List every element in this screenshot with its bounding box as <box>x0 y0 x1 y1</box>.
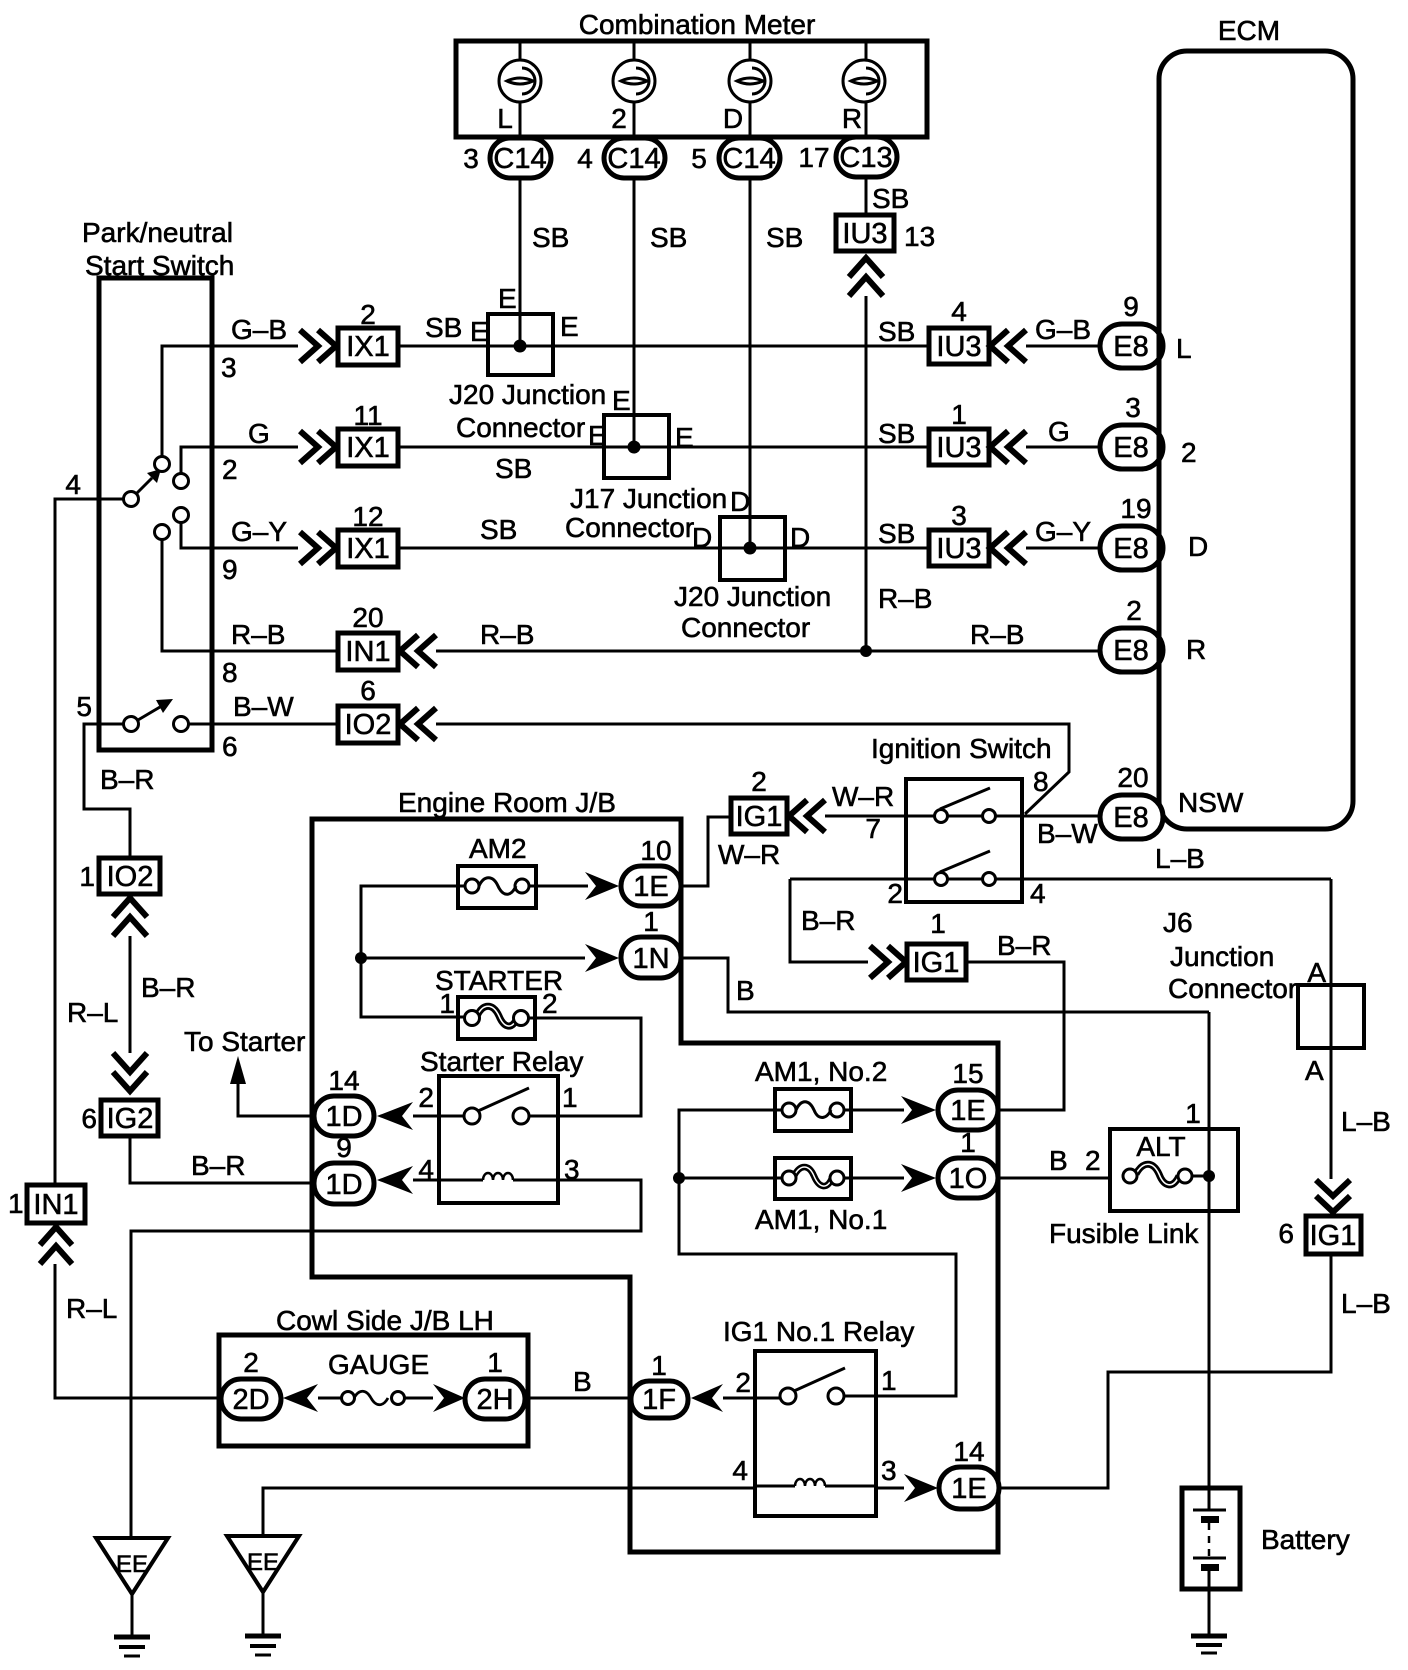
svg-text:B–R: B–R <box>801 905 855 936</box>
ignition switch arm 1 <box>940 788 990 809</box>
svg-text:2D: 2D <box>232 1384 269 1416</box>
svg-text:SB: SB <box>878 518 915 549</box>
svg-text:L–B: L–B <box>1341 1288 1391 1319</box>
svg-text:IN1: IN1 <box>345 636 390 668</box>
wire relay pin3 to 1E14 <box>876 1487 904 1490</box>
svg-text:IU3: IU3 <box>842 218 887 250</box>
svg-text:B–W: B–W <box>233 691 294 722</box>
svg-text:W–R: W–R <box>718 839 780 870</box>
svg-text:13: 13 <box>904 221 935 252</box>
svg-text:2: 2 <box>751 766 767 797</box>
svg-text:1: 1 <box>79 861 95 892</box>
svg-text:R–L: R–L <box>66 1293 117 1324</box>
svg-text:12: 12 <box>352 501 383 532</box>
arrow out of 2D <box>283 1384 318 1412</box>
connector C13 pin 17 <box>798 137 897 177</box>
connector IU3 pin 1 <box>929 399 989 465</box>
svg-text:IG1: IG1 <box>1310 1220 1357 1252</box>
svg-text:10: 10 <box>640 835 671 866</box>
svg-text:AM2: AM2 <box>469 833 527 864</box>
svg-text:2: 2 <box>360 299 376 330</box>
connector E8 pin 19 <box>1100 493 1163 570</box>
svg-text:2: 2 <box>1126 595 1142 626</box>
connector chevrons after IN1 <box>400 635 418 667</box>
ground EE 1 <box>96 1538 168 1656</box>
svg-text:2: 2 <box>243 1347 259 1378</box>
IG1 relay arm <box>794 1368 845 1391</box>
svg-text:7: 7 <box>865 813 881 844</box>
battery <box>1182 1488 1240 1634</box>
svg-text:E8: E8 <box>1113 802 1148 834</box>
connector chevrons into IG1 1 <box>870 946 888 978</box>
connector E8 pin 2 <box>1100 595 1163 672</box>
wire G-Y from E8 19 <box>1026 547 1100 550</box>
connector 1E pin 15 <box>938 1058 998 1130</box>
wire R-B vertical from IU3 13 <box>865 296 868 651</box>
node ALT output <box>1203 1170 1215 1182</box>
svg-text:Connector: Connector <box>681 612 810 643</box>
svg-text:W–R: W–R <box>832 781 894 812</box>
svg-text:SB: SB <box>650 222 687 253</box>
wire AM2 feed <box>361 886 465 1017</box>
connector chevrons after IO2 <box>400 708 418 740</box>
ignition switch arm 2 <box>940 851 990 872</box>
connector chevrons above IG2 <box>113 1053 147 1072</box>
wire G from E8 3 <box>1026 446 1100 449</box>
wire B-R from IG2 to 1D9 <box>130 1136 314 1183</box>
ground battery <box>1191 1636 1227 1653</box>
svg-text:Junction: Junction <box>1170 941 1274 972</box>
svg-text:D: D <box>790 522 810 553</box>
svg-text:3: 3 <box>881 1455 897 1486</box>
connector IG1 pin 1 <box>907 908 966 980</box>
IG1 No.1 relay box <box>755 1351 876 1516</box>
svg-text:2: 2 <box>887 878 903 909</box>
connector E8 pin 20 (NSW) <box>1100 762 1163 839</box>
svg-text:G–Y: G–Y <box>231 516 287 547</box>
junction connector J17 (E) <box>565 385 727 543</box>
svg-text:E: E <box>588 420 607 451</box>
svg-text:2: 2 <box>611 103 627 134</box>
svg-text:E8: E8 <box>1113 533 1148 565</box>
node R-B junction <box>860 645 872 657</box>
svg-text:2: 2 <box>418 1082 434 1113</box>
svg-text:IG1: IG1 <box>736 801 783 833</box>
svg-text:IO2: IO2 <box>345 709 392 741</box>
svg-text:J20 Junction: J20 Junction <box>674 581 831 612</box>
switch upper contacts <box>155 457 170 472</box>
svg-text:SB: SB <box>480 514 517 545</box>
svg-text:R–B: R–B <box>231 619 285 650</box>
svg-text:4: 4 <box>65 469 81 500</box>
connector 2D pin 2 <box>221 1347 281 1419</box>
connector chevrons under IN1 1 <box>40 1227 72 1245</box>
svg-text:1: 1 <box>1185 1098 1201 1129</box>
svg-text:B–R: B–R <box>100 764 154 795</box>
svg-text:Starter Relay: Starter Relay <box>420 1046 583 1077</box>
svg-text:L: L <box>497 103 513 134</box>
svg-text:SB: SB <box>766 222 803 253</box>
wire pin 5 down to IO2 <box>84 724 130 858</box>
wire B-R from IG1 1 to 1E 15 <box>966 962 1064 1110</box>
svg-text:EE: EE <box>247 1549 279 1576</box>
svg-text:J20 Junction: J20 Junction <box>449 379 606 410</box>
svg-text:20: 20 <box>1117 762 1148 793</box>
wire AM1 No1 to 1O <box>844 1177 904 1180</box>
svg-text:1: 1 <box>930 908 946 939</box>
fuse AM2 <box>458 866 536 908</box>
connector IN1 pin 1 <box>8 1185 85 1223</box>
wire pin 8 stub <box>162 540 338 651</box>
svg-text:B–R: B–R <box>191 1150 245 1181</box>
svg-text:Battery: Battery <box>1261 1524 1350 1555</box>
svg-text:E: E <box>675 422 694 453</box>
starter relay coil <box>439 1173 558 1180</box>
arrow into 1D 14 <box>377 1102 413 1130</box>
wire ignition row 2 L-B <box>790 878 1331 881</box>
connector IU3 pin 3 <box>929 500 989 566</box>
connector chevrons into IX1 row 2 <box>300 431 318 463</box>
svg-text:1F: 1F <box>642 1384 676 1416</box>
svg-text:6: 6 <box>360 675 376 706</box>
connector IU3 pin 4 <box>929 296 989 364</box>
wire row D (G-Y/SB) <box>398 547 929 550</box>
svg-text:5: 5 <box>691 143 707 174</box>
fuse GAUGE <box>318 1391 433 1405</box>
svg-text:2: 2 <box>1181 437 1197 468</box>
svg-text:E: E <box>498 283 517 314</box>
svg-text:E: E <box>470 316 489 347</box>
connector 1E pin 10 <box>621 835 681 906</box>
connector chevrons into IX1 row D <box>300 532 318 564</box>
svg-text:IG1 No.1 Relay: IG1 No.1 Relay <box>723 1316 914 1347</box>
connector IG2 pin 6 <box>81 1100 158 1136</box>
svg-text:4: 4 <box>951 296 967 327</box>
lamp D <box>729 60 771 102</box>
wire W-R <box>825 815 906 818</box>
connector 1N pin 1 <box>621 906 681 978</box>
svg-text:D: D <box>1188 531 1208 562</box>
svg-text:IU3: IU3 <box>936 432 981 464</box>
fuse AM1 No.1 (fusible link) <box>775 1158 851 1199</box>
svg-text:B–R: B–R <box>141 972 195 1003</box>
fusible link ALT box <box>1110 1129 1238 1211</box>
svg-text:C14: C14 <box>493 143 546 175</box>
svg-text:L–B: L–B <box>1341 1106 1391 1137</box>
svg-text:R–L: R–L <box>67 997 118 1028</box>
svg-text:J17 Junction: J17 Junction <box>570 483 727 514</box>
svg-text:C14: C14 <box>722 143 775 175</box>
svg-text:1: 1 <box>651 1350 667 1381</box>
connector chevrons under IU3 13 <box>849 258 883 277</box>
svg-text:1N: 1N <box>632 943 669 975</box>
svg-text:1E: 1E <box>951 1473 986 1505</box>
svg-text:6: 6 <box>81 1103 97 1134</box>
svg-text:R–B: R–B <box>878 583 932 614</box>
wire STARTER to relay pin1 <box>528 1018 641 1116</box>
svg-text:E8: E8 <box>1113 635 1148 667</box>
arrow into 1N <box>585 944 619 972</box>
cowl side J/B box <box>219 1335 528 1446</box>
svg-text:14: 14 <box>953 1436 984 1467</box>
wire relay pin2 to 1D14 <box>413 1115 439 1118</box>
wire 2H to 1F <box>525 1397 631 1400</box>
svg-text:Cowl Side J/B LH: Cowl Side J/B LH <box>276 1305 494 1336</box>
lamp R <box>843 60 885 102</box>
arrow into 1E 14 <box>904 1474 938 1502</box>
fuse AM1 No.2 <box>775 1089 851 1131</box>
wire NSW row <box>906 815 1100 818</box>
svg-text:R–B: R–B <box>480 619 534 650</box>
svg-text:B: B <box>573 1366 592 1397</box>
svg-text:SB: SB <box>872 183 909 214</box>
connector IG1 pin 2 <box>731 766 787 834</box>
svg-text:11: 11 <box>353 400 382 431</box>
svg-text:Fusible Link: Fusible Link <box>1049 1218 1199 1249</box>
svg-text:Connector: Connector <box>565 512 694 543</box>
svg-text:5: 5 <box>76 691 92 722</box>
starter relay box <box>439 1076 558 1203</box>
svg-text:SB: SB <box>878 418 915 449</box>
wire G-B from E8 L <box>1026 345 1100 348</box>
svg-text:9: 9 <box>1123 291 1139 322</box>
connector 1O pin 1 <box>938 1127 998 1198</box>
wire row B-W <box>436 724 1069 814</box>
svg-text:2: 2 <box>735 1367 751 1398</box>
junction connector J20 (E) <box>449 283 606 443</box>
svg-text:L: L <box>1176 333 1192 364</box>
svg-text:G–Y: G–Y <box>1035 516 1091 547</box>
connector chevrons after IU3 row L <box>990 330 1008 362</box>
wire pin 9 stub <box>181 523 298 548</box>
svg-text:A: A <box>1307 957 1326 988</box>
svg-text:4: 4 <box>577 143 593 174</box>
wire pin 6 B-W <box>189 723 338 726</box>
connector IG1 pin 6 <box>1278 1216 1361 1254</box>
connector E8 pin 3 <box>1100 392 1163 469</box>
svg-text:9: 9 <box>222 554 238 585</box>
arrow into IG1 relay pin 2 <box>691 1384 723 1412</box>
svg-text:9: 9 <box>336 1132 352 1163</box>
wire IG1 2 to 1E 10 <box>681 817 731 886</box>
lamp L <box>499 60 541 102</box>
svg-text:D: D <box>723 103 743 134</box>
svg-text:8: 8 <box>1033 766 1049 797</box>
wire pin 2 stub <box>181 447 298 473</box>
wire lamp stems <box>520 41 866 548</box>
svg-text:1: 1 <box>8 1188 24 1219</box>
svg-text:GAUGE: GAUGE <box>328 1349 429 1380</box>
svg-text:3: 3 <box>221 352 237 383</box>
svg-text:E: E <box>560 311 579 342</box>
svg-text:1: 1 <box>487 1347 503 1378</box>
svg-text:G: G <box>1048 416 1070 447</box>
svg-text:NSW: NSW <box>1178 787 1244 818</box>
wire AM2 to 1E10 <box>529 885 588 888</box>
svg-text:3: 3 <box>463 143 479 174</box>
svg-text:IX1: IX1 <box>346 432 390 464</box>
wire L-B vertical through J6 <box>1330 879 1333 1179</box>
svg-text:1O: 1O <box>949 1163 988 1195</box>
svg-text:1D: 1D <box>325 1169 362 1201</box>
connector IO2 pin 6 <box>338 675 398 743</box>
node AM2/1N junction <box>355 952 367 964</box>
starter relay arm <box>478 1088 529 1111</box>
svg-text:4: 4 <box>1030 878 1046 909</box>
switch lower contacts <box>124 717 139 732</box>
svg-text:Ignition Switch: Ignition Switch <box>871 733 1052 764</box>
svg-text:R–B: R–B <box>970 619 1024 650</box>
svg-text:SB: SB <box>532 222 569 253</box>
svg-text:R: R <box>842 103 862 134</box>
svg-text:1: 1 <box>951 399 967 430</box>
wire pin 4 to left <box>55 499 123 1185</box>
connector IX1 pin 12 <box>338 501 398 567</box>
connector C14 pin 3 <box>463 138 551 178</box>
svg-text:3: 3 <box>951 500 967 531</box>
connector 1D pin 9 <box>314 1132 374 1204</box>
wire battery column <box>1208 1012 1211 1510</box>
wire AM1 No1 feed <box>679 1177 782 1180</box>
svg-text:D: D <box>730 486 750 517</box>
IG1 relay contacts <box>780 1388 796 1404</box>
svg-text:1: 1 <box>960 1127 976 1158</box>
fuse STARTER (fusible link) <box>458 997 535 1039</box>
svg-text:SB: SB <box>495 453 532 484</box>
junction connector J6 box <box>1298 985 1364 1048</box>
svg-text:15: 15 <box>952 1058 983 1089</box>
svg-text:A: A <box>1305 1055 1324 1086</box>
svg-text:SB: SB <box>425 312 462 343</box>
svg-text:IG1: IG1 <box>913 947 960 979</box>
svg-text:IO2: IO2 <box>107 861 154 893</box>
svg-text:G–B: G–B <box>231 314 287 345</box>
wire relay pin4 to 1D9 <box>413 1179 439 1182</box>
svg-text:ECM: ECM <box>1218 15 1280 46</box>
svg-text:Connector: Connector <box>1168 973 1297 1004</box>
svg-text:To Starter: To Starter <box>184 1026 305 1057</box>
connector C14 pin 5 <box>691 138 780 178</box>
svg-text:B: B <box>1049 1145 1068 1176</box>
wire To Starter <box>238 1084 314 1116</box>
lamp 2 <box>613 60 655 102</box>
svg-text:IN1: IN1 <box>33 1189 78 1221</box>
svg-text:6: 6 <box>222 731 238 762</box>
wire L-B lower <box>999 1254 1331 1488</box>
svg-text:IX1: IX1 <box>346 533 390 565</box>
svg-text:20: 20 <box>352 602 383 633</box>
wire row L (G-B/SB) <box>398 345 929 348</box>
wire R-L to 2D <box>55 1264 221 1398</box>
switch lower moving arm <box>138 699 173 720</box>
svg-text:19: 19 <box>1120 493 1151 524</box>
wire pin 3 stub <box>162 346 298 456</box>
connector IX1 pin 2 <box>338 299 398 365</box>
connector E8 pin 9 <box>1100 291 1163 368</box>
wire 1O to ALT <box>998 1177 1110 1180</box>
svg-text:B–R: B–R <box>997 930 1051 961</box>
connector chevrons after IU3 row 2 <box>990 431 1008 463</box>
svg-text:2: 2 <box>1085 1145 1101 1176</box>
svg-text:1D: 1D <box>325 1101 362 1133</box>
svg-text:1: 1 <box>881 1365 897 1396</box>
svg-text:B: B <box>736 975 755 1006</box>
svg-text:IG2: IG2 <box>107 1103 154 1135</box>
arrow into 2H <box>433 1384 465 1412</box>
svg-text:8: 8 <box>222 657 238 688</box>
connector chevrons into IX1 row L <box>300 330 318 362</box>
svg-text:L–B: L–B <box>1155 843 1205 874</box>
svg-text:AM1, No.2: AM1, No.2 <box>755 1056 887 1087</box>
connector 2H pin 1 <box>465 1347 525 1419</box>
svg-text:1: 1 <box>562 1082 578 1113</box>
arrow into 1D 9 <box>377 1166 413 1194</box>
connector IO2 pin 1 <box>79 858 160 894</box>
svg-text:EE: EE <box>116 1551 148 1578</box>
IG1 relay coil <box>755 1479 876 1486</box>
svg-text:IX1: IX1 <box>346 331 390 363</box>
connector C14 pin 4 <box>577 138 665 178</box>
svg-text:4: 4 <box>732 1455 748 1486</box>
connector 1F pin 1 <box>631 1350 688 1418</box>
svg-text:E8: E8 <box>1113 331 1148 363</box>
arrow into 1E 10 <box>585 872 619 900</box>
svg-text:1E: 1E <box>633 871 668 903</box>
svg-text:B–W: B–W <box>1037 818 1098 849</box>
connector 1D pin 14 <box>314 1065 374 1136</box>
svg-text:1E: 1E <box>950 1095 985 1127</box>
connector IU3 pin 13 <box>836 215 935 252</box>
connector 1E pin 14 <box>939 1436 999 1509</box>
svg-text:IU3: IU3 <box>936 533 981 565</box>
ignition switch box <box>906 779 1022 902</box>
park/neutral start switch box <box>99 278 212 750</box>
svg-text:2: 2 <box>222 454 238 485</box>
svg-text:C13: C13 <box>839 142 892 174</box>
connector chevrons under IO2 1 <box>113 898 147 917</box>
svg-text:2H: 2H <box>476 1384 513 1416</box>
svg-text:1: 1 <box>643 906 659 937</box>
wire row 2 (G/SB) <box>398 446 929 449</box>
junction connector J20 (D) <box>674 486 831 643</box>
ignition switch contacts row 2 <box>935 873 948 886</box>
connector chevrons into IG1 6 <box>1316 1180 1350 1196</box>
wire B-R / R-L chain <box>129 936 132 1053</box>
svg-text:Engine Room J/B: Engine Room J/B <box>398 787 616 818</box>
wire coil to EE2 ground <box>263 1488 755 1536</box>
svg-text:R: R <box>1186 634 1206 665</box>
svg-text:G–B: G–B <box>1035 314 1091 345</box>
svg-text:SB: SB <box>878 316 915 347</box>
svg-text:C14: C14 <box>607 143 660 175</box>
switch upper moving arm <box>136 469 161 494</box>
svg-text:1: 1 <box>439 988 455 1019</box>
wire AM1 No2 to 1E15 <box>844 1109 904 1112</box>
svg-text:17: 17 <box>798 142 829 173</box>
connector IN1 pin 20 <box>338 602 398 670</box>
starter relay contacts <box>439 1108 558 1124</box>
svg-text:14: 14 <box>328 1065 359 1096</box>
svg-text:IU3: IU3 <box>936 331 981 363</box>
ECM box <box>1159 51 1353 829</box>
connector chevrons after IU3 row D <box>990 532 1008 564</box>
svg-text:3: 3 <box>1125 392 1141 423</box>
node AM1 junction <box>673 1172 685 1184</box>
wire to 1N <box>361 957 585 960</box>
wire relay pin3 to ground run <box>131 1180 641 1538</box>
svg-text:D: D <box>692 522 712 553</box>
svg-text:6: 6 <box>1278 1218 1294 1249</box>
